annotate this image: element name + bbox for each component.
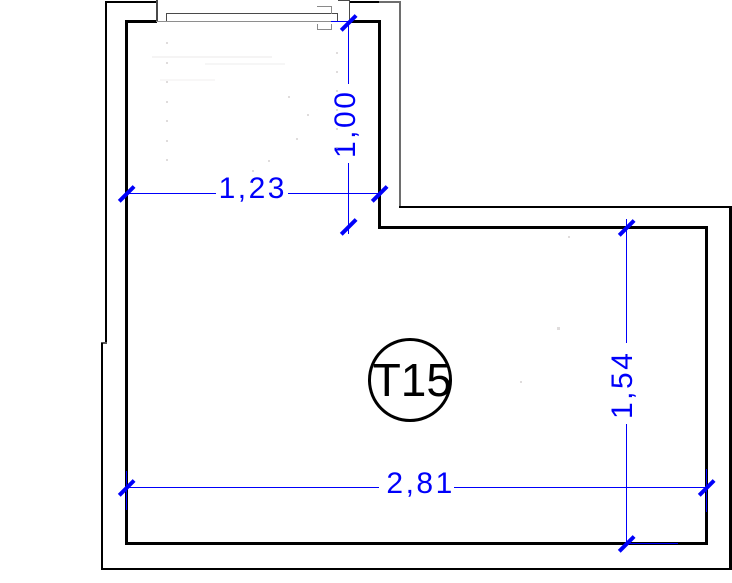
room label text T15 (373, 357, 452, 403)
dimension 1,00 bottom tick (340, 219, 357, 236)
window sill frame line (166, 13, 338, 14)
dimension 1,54 top tick (618, 219, 635, 236)
faint dotted column x=166 (166, 42, 168, 44)
wall outer-left jog (101, 342, 107, 344)
dimension 2,81 text (386, 469, 454, 499)
wall outer-step vertical (gray) (399, 2, 401, 206)
wall inner-top right of window (349, 20, 381, 23)
room label circle T15 (368, 338, 453, 422)
window right jamb top line (338, 0, 350, 1)
dimension 2,81 left extension (126, 471, 127, 510)
wall outer-step horizontal (399, 206, 732, 209)
gray artifact A vertical (331, 6, 332, 15)
gray artifact B bottom (317, 29, 332, 30)
wall inner-right lower room (705, 226, 708, 546)
wall inner-bottom (125, 542, 708, 545)
wall outer-left upper segment (105, 1, 107, 343)
faint smudge streaks below window (152, 56, 272, 58)
wall inner-left (125, 20, 128, 546)
wall outer-left lower segment (101, 343, 103, 570)
dimension 1,00 line lower segment (348, 163, 349, 234)
gray artifact B right vertical (331, 24, 332, 30)
window left edge (156, 0, 157, 22)
dimension 1,23 text (219, 174, 287, 204)
dimension 2,81 line right segment (454, 487, 707, 488)
wall inner-step horizontal (378, 226, 708, 229)
wall outer-top left segment (105, 1, 157, 3)
dimension 1,00 top extension (331, 21, 352, 22)
window base (white field) (156, 0, 350, 21)
dimension 1,54 bottom tick (618, 535, 635, 552)
dimension 1,23 line right segment (288, 193, 382, 194)
dimension 1,00 text (rotated) (331, 92, 361, 158)
wall inner-top left of window (125, 20, 157, 23)
wall outer-top right segment (gray part) (379, 1, 401, 3)
dimension 1,00 line upper segment (348, 21, 349, 84)
dimension 2,81 left tick (118, 479, 135, 496)
wall outer-bottom (101, 568, 732, 571)
dimension 1,54 line upper segment (626, 219, 627, 344)
dimension 1,54 text (rotated) (608, 353, 638, 419)
dimension 1,00 top tick (340, 14, 357, 31)
dimension 1,54 bottom extension (627, 543, 678, 544)
wall outer-right (729, 206, 732, 571)
dimension 1,23 left tick (118, 185, 135, 202)
wall inner-right upper room (378, 20, 381, 229)
faint dotted column x=336 (336, 52, 338, 54)
dimension 1,23 right tick (371, 185, 388, 202)
window right jamb line (337, 13, 338, 21)
window right edge (349, 0, 350, 21)
dimension 1,23 line left segment (127, 193, 216, 194)
dimension 1,54 line lower segment (626, 424, 627, 546)
gray artifact A horizontal (317, 6, 332, 7)
dimension 2,81 right extension (706, 469, 707, 512)
window lower gray line (156, 21, 350, 22)
window left jamb line (166, 13, 167, 22)
wall outer-top right segment (black part) (350, 1, 379, 3)
faint scattered smudge dots (307, 114, 309, 116)
dimension 2,81 right tick (698, 479, 715, 496)
dimension 2,81 line left segment (127, 487, 379, 488)
gray artifact B left vertical (317, 24, 318, 30)
